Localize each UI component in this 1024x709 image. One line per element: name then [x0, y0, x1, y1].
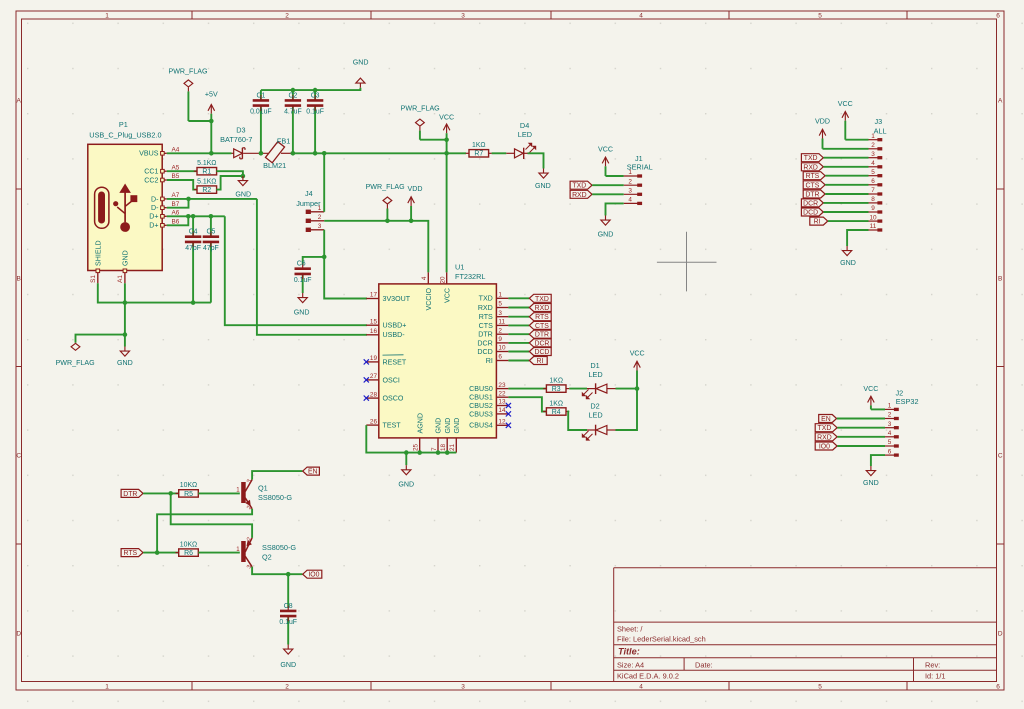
- P1 pin A1 GND: [117, 250, 129, 283]
- svg-text:3: 3: [871, 151, 875, 158]
- svg-text:GND: GND: [598, 230, 614, 238]
- U1 pin 2 DTR: [478, 327, 508, 338]
- svg-text:16: 16: [370, 328, 378, 335]
- svg-text:25: 25: [413, 443, 420, 451]
- svg-text:TXD: TXD: [572, 183, 586, 190]
- resistor R6 10K: [176, 541, 202, 557]
- svg-text:A: A: [17, 98, 22, 105]
- global label RI at J3: [810, 217, 828, 226]
- svg-text:GND: GND: [235, 191, 251, 199]
- LED D1: [582, 361, 615, 399]
- svg-text:Date:: Date:: [695, 660, 713, 669]
- global label RXD at J2: [815, 433, 837, 442]
- power flag PWR_FLAG mid: [366, 183, 405, 221]
- U1 pin 23 CBUS0: [469, 382, 508, 393]
- wire R5 to Q1 base: [198, 492, 240, 494]
- svg-text:RXD: RXD: [535, 305, 550, 312]
- global label TXD at J3: [801, 154, 823, 163]
- svg-text:DCR: DCR: [477, 339, 492, 347]
- svg-text:13: 13: [498, 399, 506, 406]
- svg-text:R1: R1: [202, 169, 211, 176]
- svg-text:EN: EN: [821, 416, 831, 423]
- power symbol VCC at J2: [863, 385, 878, 409]
- svg-text:U1: U1: [455, 263, 464, 272]
- wire Q1 emitter to RTS node: [157, 509, 252, 553]
- global label RTS at U1: [529, 313, 551, 322]
- U1 pin 14 CBUS3: [469, 407, 511, 418]
- svg-text:IO0: IO0: [308, 572, 319, 579]
- svg-text:VCC: VCC: [439, 114, 454, 122]
- global label TXD at U1: [529, 294, 551, 303]
- svg-text:USBD-: USBD-: [383, 331, 406, 339]
- svg-text:C2: C2: [288, 92, 297, 99]
- svg-text:VCC: VCC: [863, 385, 878, 393]
- wire C8 tap down: [287, 574, 289, 608]
- svg-text:R7: R7: [474, 151, 483, 158]
- junction VCC pwrflag: [444, 137, 449, 142]
- wire VCC to J1 pin1: [606, 175, 624, 177]
- global label CTS at J3: [803, 181, 825, 190]
- U1 pin 1 TXD: [479, 292, 509, 303]
- global label DTR at Q1: [121, 489, 143, 498]
- svg-text:6: 6: [498, 354, 502, 361]
- wire Q2 emitter to IO0: [252, 567, 302, 574]
- wire DTR to J3: [825, 193, 868, 195]
- svg-text:DCR: DCR: [803, 200, 818, 207]
- svg-text:RTS: RTS: [535, 314, 549, 321]
- svg-text:GND: GND: [840, 259, 856, 267]
- svg-text:1KΩ: 1KΩ: [549, 377, 563, 384]
- svg-text:VDD: VDD: [408, 185, 423, 193]
- junction gnd branch: [123, 332, 128, 337]
- wire CC1 to R1: [167, 170, 198, 172]
- junction DTR node: [168, 491, 173, 496]
- svg-text:1: 1: [105, 13, 109, 20]
- svg-text:J3: J3: [874, 117, 882, 126]
- svg-text:B: B: [998, 276, 1002, 283]
- U1 pin 11 CTS: [479, 319, 509, 330]
- svg-text:6: 6: [871, 178, 875, 185]
- wire R3 to D1: [569, 388, 587, 390]
- wire U1 RXD to label: [508, 307, 529, 309]
- J3 pin 9: [869, 205, 882, 213]
- svg-text:9: 9: [871, 205, 875, 212]
- svg-text:C3: C3: [311, 92, 320, 99]
- wire TXD to J2: [837, 427, 885, 429]
- junction C3 top: [313, 88, 318, 93]
- title block: [614, 568, 997, 682]
- wire VDD to J3 pin2: [823, 148, 869, 150]
- svg-text:TXD: TXD: [804, 155, 818, 162]
- svg-text:2: 2: [285, 684, 289, 691]
- transistor Q2 SS8050-G: [236, 536, 296, 570]
- svg-text:GND: GND: [294, 309, 310, 317]
- svg-text:D+: D+: [149, 222, 158, 230]
- connector J4 Jumper: [296, 189, 321, 208]
- svg-text:D: D: [16, 631, 21, 638]
- svg-text:GND: GND: [435, 418, 443, 434]
- svg-text:1: 1: [105, 684, 109, 691]
- svg-text:2: 2: [318, 214, 322, 221]
- junction GND7: [436, 450, 441, 455]
- svg-text:CTS: CTS: [479, 322, 493, 330]
- svg-text:18: 18: [440, 443, 447, 451]
- connector J2 ESP32: [896, 389, 919, 406]
- U1 pin 18 GND: [440, 418, 452, 453]
- svg-text:27: 27: [370, 373, 378, 380]
- svg-text:D3: D3: [236, 125, 245, 134]
- U1 pin 6 RI: [486, 354, 509, 365]
- svg-text:GND: GND: [353, 59, 369, 67]
- svg-text:0.1uF: 0.1uF: [306, 109, 324, 116]
- J2 pin 3: [885, 421, 898, 429]
- svg-text:1KΩ: 1KΩ: [549, 400, 563, 407]
- U1 pin 12 CBUS4: [469, 419, 511, 430]
- P1 pin A6 D+: [149, 210, 180, 221]
- J2 pin 4: [885, 430, 898, 438]
- svg-text:ALL: ALL: [874, 127, 887, 136]
- svg-text:3V3OUT: 3V3OUT: [383, 295, 411, 303]
- ground GND below C8: [280, 645, 296, 670]
- wire U1 DCD to label: [508, 351, 529, 353]
- U1 pin 10 DCD: [477, 345, 508, 356]
- svg-text:RTS: RTS: [479, 313, 493, 321]
- svg-text:R3: R3: [552, 386, 561, 393]
- svg-text:RI: RI: [814, 219, 821, 226]
- connector J1 SERIAL: [627, 154, 653, 172]
- wire U1 DTR to label: [508, 333, 529, 335]
- J2 pin 6: [885, 448, 898, 456]
- svg-text:5: 5: [871, 169, 875, 176]
- svg-text:R4: R4: [552, 409, 561, 416]
- svg-text:1: 1: [871, 133, 875, 140]
- U1 pin 7 GND: [431, 418, 443, 453]
- svg-text:C6: C6: [297, 261, 306, 268]
- svg-text:C8: C8: [284, 603, 293, 610]
- svg-text:22: 22: [498, 390, 506, 397]
- svg-text:AGND: AGND: [416, 413, 424, 434]
- global label RTS at J3: [803, 172, 825, 181]
- wire VCC down to D2: [616, 389, 638, 430]
- svg-text:47pF: 47pF: [185, 245, 201, 252]
- svg-text:DTR: DTR: [805, 192, 819, 199]
- svg-text:0.1uF: 0.1uF: [294, 277, 312, 284]
- wire R6 to Q2 base: [198, 552, 240, 554]
- svg-text:CBUS2: CBUS2: [469, 402, 493, 410]
- svg-text:J4: J4: [305, 189, 313, 198]
- wire R7 to D4: [492, 152, 507, 154]
- power flag PWR_FLAG bottom-left: [56, 343, 95, 367]
- svg-text:7: 7: [431, 447, 438, 451]
- junction VDD tap: [409, 219, 414, 224]
- resistor R2 5.1K: [194, 178, 220, 194]
- svg-text:D+: D+: [149, 213, 158, 221]
- svg-text:4: 4: [639, 684, 643, 691]
- connector J3 ALL: [874, 117, 887, 135]
- J3 pin 10: [869, 214, 882, 222]
- capacitor C1 0.01uF: [250, 90, 271, 153]
- junction C2 tap: [291, 151, 296, 156]
- wire TEST to ground rail: [366, 425, 456, 453]
- P1 pin B6 D+: [149, 219, 180, 230]
- capacitor C2 4.7uF: [284, 90, 302, 153]
- junction C1 tap: [259, 151, 264, 156]
- svg-text:CBUS0: CBUS0: [469, 385, 493, 393]
- svg-text:3: 3: [498, 310, 502, 317]
- svg-text:R5: R5: [184, 491, 193, 498]
- wire U1 TXD to label: [508, 297, 529, 299]
- svg-text:J1: J1: [635, 154, 643, 163]
- svg-text:5: 5: [818, 684, 822, 691]
- svg-text:DTR: DTR: [535, 332, 549, 339]
- J3 pin 8: [869, 196, 882, 204]
- svg-text:2: 2: [871, 142, 875, 149]
- power symbol VCC at J3: [838, 100, 853, 140]
- junction +5V stem: [209, 119, 214, 124]
- capacitor C6 0.1uF: [294, 261, 312, 293]
- wire J2 pin6 to GND: [871, 455, 885, 466]
- junction C5 top tap: [209, 214, 214, 219]
- svg-text:S1: S1: [90, 275, 97, 283]
- U1 pin 17 3V3OUT: [366, 292, 410, 303]
- svg-text:PWR_FLAG: PWR_FLAG: [56, 359, 95, 367]
- svg-text:1: 1: [888, 403, 892, 410]
- svg-text:3: 3: [888, 421, 892, 428]
- svg-text:10KΩ: 10KΩ: [180, 541, 197, 548]
- J4 pin 3: [306, 223, 324, 232]
- svg-text:GND: GND: [121, 250, 129, 266]
- global label RXD at U1: [529, 304, 551, 313]
- wire DCD to J3: [824, 211, 869, 213]
- svg-text:VDD: VDD: [815, 118, 830, 126]
- wire CC2 to R2: [167, 180, 198, 190]
- svg-text:B: B: [17, 276, 21, 283]
- svg-text:RI: RI: [486, 357, 493, 365]
- svg-text:1: 1: [628, 169, 632, 176]
- svg-text:47pF: 47pF: [203, 245, 219, 252]
- U1 pin 25 AGND: [413, 413, 425, 453]
- ground GND at J2: [863, 466, 879, 487]
- wire J1 pin4 to GND: [606, 203, 624, 215]
- svg-text:VCCIO: VCCIO: [425, 288, 433, 311]
- svg-text:5: 5: [818, 13, 822, 20]
- svg-text:CBUS4: CBUS4: [469, 422, 493, 430]
- transistor Q1 SS8050-G: [236, 478, 292, 510]
- svg-text:GND: GND: [117, 359, 133, 367]
- svg-text:GND: GND: [863, 479, 879, 487]
- svg-text:15: 15: [370, 318, 378, 325]
- U1 pin 9 DCR: [477, 336, 508, 347]
- J3 pin 3: [869, 151, 882, 159]
- wire IO0 to J2: [837, 445, 885, 447]
- U1 pin 16 USBD-: [366, 328, 405, 339]
- svg-text:0.01uF: 0.01uF: [250, 109, 271, 116]
- global label TXD at J2: [815, 424, 837, 433]
- svg-text:DCD: DCD: [477, 348, 492, 356]
- svg-text:19: 19: [370, 355, 378, 362]
- cursor crosshair: [657, 232, 717, 292]
- svg-text:LED: LED: [588, 411, 602, 420]
- svg-text:5: 5: [498, 301, 502, 308]
- svg-text:PWR_FLAG: PWR_FLAG: [366, 183, 405, 191]
- svg-text:GND: GND: [444, 418, 452, 434]
- wire VCC to J2 pin1: [871, 408, 885, 410]
- wire A1 pin down to gnd: [124, 283, 126, 346]
- global label TXD at J1: [570, 181, 592, 190]
- junction R1/R2 GND node: [241, 174, 246, 179]
- svg-text:RXD: RXD: [572, 192, 587, 199]
- svg-text:9: 9: [498, 336, 502, 343]
- global label EN at J2: [819, 415, 837, 424]
- svg-text:Title:: Title:: [618, 647, 640, 657]
- junction PWR_FLAG mid tap: [385, 219, 390, 224]
- svg-text:RESET: RESET: [383, 358, 407, 366]
- ground GND at R1/R2: [235, 176, 251, 199]
- wire U1 RTS to label: [508, 316, 529, 318]
- svg-text:Sheet: /: Sheet: /: [617, 625, 643, 634]
- P1 pin A7 D-: [151, 192, 180, 203]
- svg-text:4: 4: [628, 197, 632, 204]
- wire DTR to R5: [143, 492, 179, 494]
- global label CTS at U1: [529, 321, 551, 330]
- wire RTS to R6: [143, 552, 179, 554]
- wire D- down to USBD-: [257, 199, 367, 335]
- svg-text:SHIELD: SHIELD: [94, 240, 102, 266]
- svg-text:RXD: RXD: [478, 304, 493, 312]
- global label RTS at Q2: [121, 549, 143, 558]
- svg-text:11: 11: [870, 223, 877, 230]
- svg-text:OSCI: OSCI: [383, 376, 400, 384]
- wire R2 to GND node: [216, 176, 243, 190]
- svg-text:C5: C5: [206, 229, 215, 236]
- power flag PWR_FLAG at VCC: [401, 105, 447, 140]
- wire CTS to J3: [825, 184, 868, 186]
- capacitor C5 47pF: [203, 216, 219, 302]
- junction GND18: [445, 450, 450, 455]
- svg-text:TEST: TEST: [383, 422, 402, 430]
- svg-text:GND: GND: [280, 661, 296, 669]
- junction D1 VCC: [635, 386, 640, 391]
- wire D+ down to USBD+: [225, 216, 367, 325]
- svg-text:D: D: [998, 631, 1003, 638]
- wire Q1 collector to EN: [252, 471, 302, 480]
- svg-text:11: 11: [498, 319, 505, 326]
- ground GND below P1: [117, 347, 133, 367]
- wire RXD to J2: [837, 436, 885, 438]
- resistor R3 1K: [543, 377, 569, 393]
- svg-text:5: 5: [888, 439, 892, 446]
- P1 pin S1 SHIELD: [90, 240, 102, 283]
- global label DCR at U1: [529, 339, 551, 348]
- capacitor C8 0.1uF: [279, 603, 297, 645]
- junction C2 top: [291, 88, 296, 93]
- svg-text:VCC: VCC: [443, 288, 451, 303]
- wire DCR to J3: [824, 202, 869, 204]
- svg-text:RTS: RTS: [124, 550, 138, 557]
- wire C6 tap: [303, 257, 325, 265]
- wire U1 DCR to label: [508, 342, 529, 344]
- svg-text:USB_C_Plug_USB2.0: USB_C_Plug_USB2.0: [89, 130, 161, 139]
- svg-text:3: 3: [461, 13, 465, 20]
- svg-text:2: 2: [628, 178, 632, 185]
- svg-text:CC2: CC2: [144, 176, 158, 184]
- wire TXD to J1 pin2: [592, 184, 624, 186]
- global label DCD at U1: [529, 348, 551, 357]
- svg-text:5.1KΩ: 5.1KΩ: [197, 178, 216, 185]
- ground GND after D4: [535, 169, 551, 191]
- svg-text:RXD: RXD: [817, 434, 832, 441]
- wire EN to J2: [837, 418, 885, 420]
- wire VCC to J3 pin1: [845, 139, 868, 141]
- svg-text:BAT760-7: BAT760-7: [220, 135, 252, 144]
- global label RXD at J1: [570, 190, 592, 199]
- J3 pin 11: [869, 223, 882, 231]
- junction VBUS at +5V: [209, 151, 214, 156]
- svg-text:VBUS: VBUS: [139, 150, 159, 158]
- svg-text:6: 6: [996, 13, 1000, 20]
- svg-text:USBD+: USBD+: [383, 322, 407, 330]
- svg-text:7: 7: [871, 187, 875, 194]
- svg-text:IO0: IO0: [819, 444, 830, 451]
- LED D2: [582, 402, 615, 441]
- svg-text:LED: LED: [518, 130, 532, 139]
- ferrite bead FB1 BLM21: [263, 137, 290, 170]
- wire VCC down to U1: [446, 153, 448, 272]
- U1 pin 4 VCCIO: [421, 272, 433, 310]
- svg-text:LED: LED: [588, 370, 602, 379]
- svg-text:GND: GND: [398, 481, 414, 489]
- J3 pin 1: [869, 133, 882, 141]
- svg-text:4: 4: [421, 276, 428, 280]
- power symbol VDD at J3: [815, 118, 830, 149]
- wire +5V to VBUS: [210, 121, 212, 153]
- junction VCC tap: [444, 151, 449, 156]
- junction A1 gnd rail: [123, 300, 128, 305]
- svg-text:ESP32: ESP32: [896, 397, 919, 406]
- wire RTS to J3: [825, 175, 868, 177]
- svg-text:Q1: Q1: [258, 483, 268, 492]
- svg-text:R2: R2: [202, 187, 211, 194]
- svg-text:Id: 1/1: Id: 1/1: [925, 672, 946, 681]
- svg-text:DCR: DCR: [534, 340, 549, 347]
- svg-text:A: A: [998, 98, 1003, 105]
- J2 pin 5: [885, 439, 898, 447]
- svg-text:FB1: FB1: [277, 137, 290, 146]
- ground GND at J3: [840, 246, 856, 267]
- svg-text:OSCO: OSCO: [383, 395, 404, 403]
- svg-text:RXD: RXD: [803, 164, 818, 171]
- J2 pin 2: [885, 412, 898, 420]
- wire shield ground rail: [98, 283, 211, 302]
- svg-text:P1: P1: [119, 120, 128, 129]
- USB icon inside P1: [95, 185, 137, 232]
- svg-text:10: 10: [498, 345, 506, 352]
- J3 pin 6: [869, 178, 882, 186]
- wire U1 CTS to label: [508, 324, 529, 326]
- svg-text:2: 2: [498, 327, 502, 334]
- junction RTS node: [155, 550, 160, 555]
- wire D- B7 joins A7: [167, 199, 189, 208]
- wire CBUS0 to R3: [508, 388, 546, 390]
- wire R4 to D2: [568, 412, 587, 431]
- svg-text:Size: A4: Size: A4: [617, 660, 644, 669]
- svg-text:CBUS1: CBUS1: [469, 394, 493, 402]
- wire RXD to J1 pin3: [592, 193, 624, 195]
- svg-text:DTR: DTR: [478, 331, 493, 339]
- J3 pin 2: [869, 142, 882, 150]
- svg-text:CTS: CTS: [806, 182, 820, 189]
- svg-text:R6: R6: [184, 550, 193, 557]
